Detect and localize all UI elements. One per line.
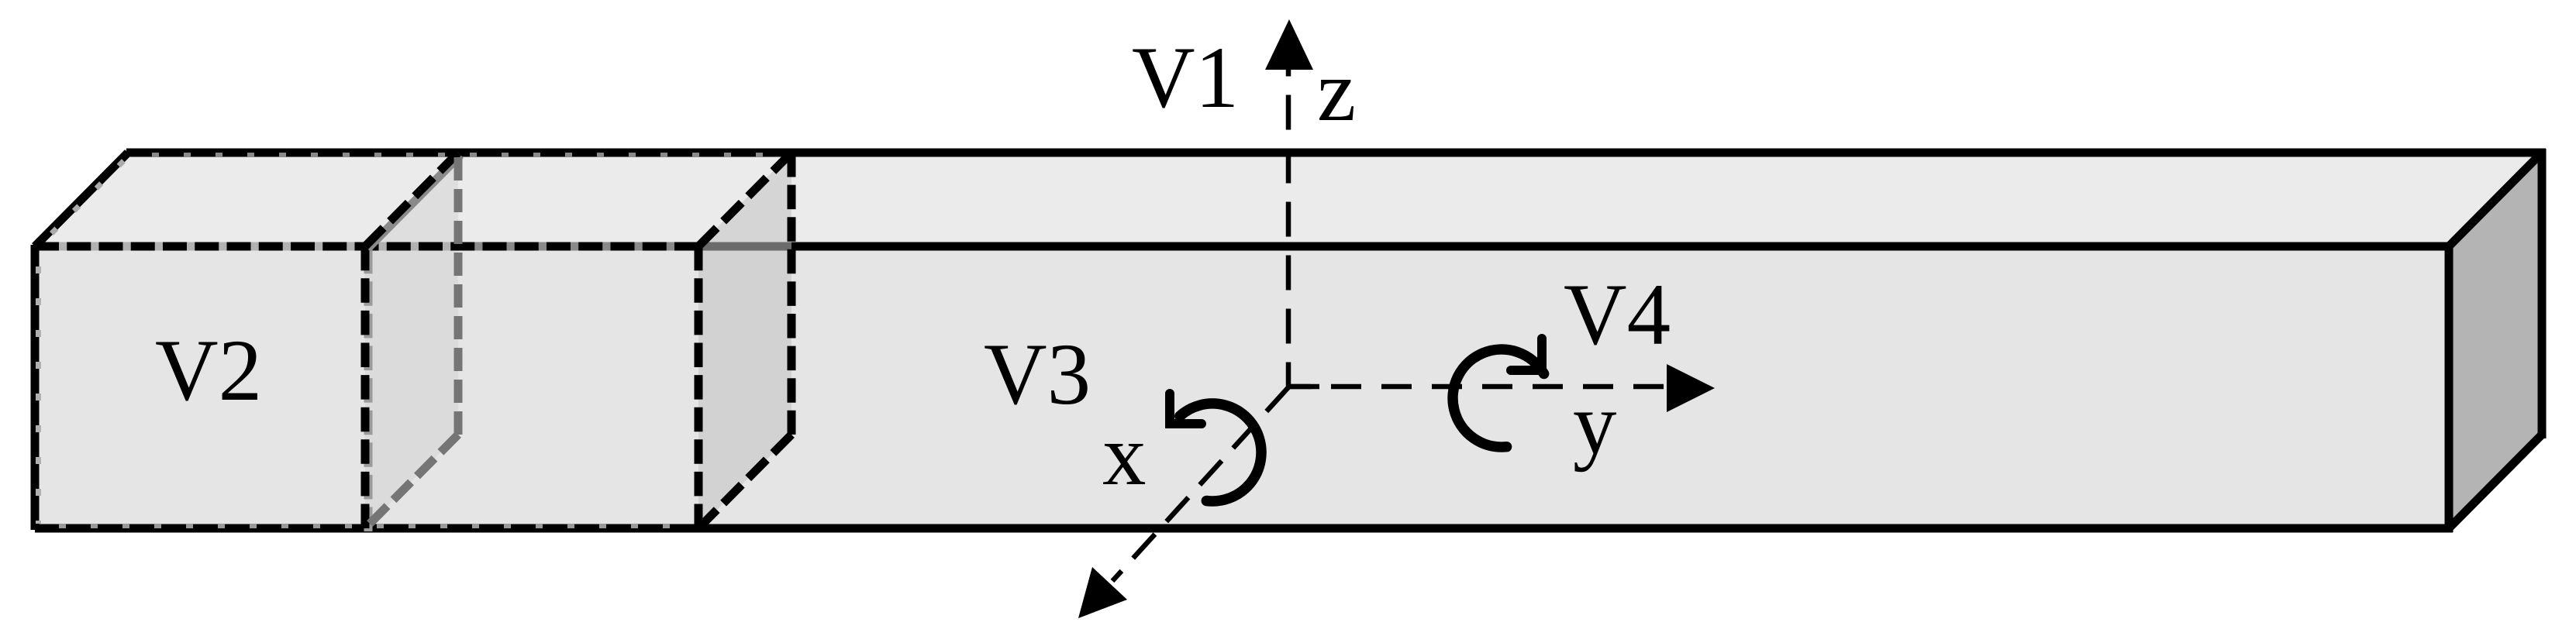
section plane P1 bottom diagonal (gray dashed) bbox=[370, 435, 458, 524]
section plane P2 front edge (black dashed) bbox=[695, 246, 703, 528]
section plane P1 front edge (black dashed) bbox=[365, 246, 368, 531]
front-top edge dashed part bbox=[35, 242, 698, 251]
beam back-top edge (solid, full length) bbox=[126, 149, 2546, 157]
y-axis dashed line bbox=[1288, 384, 1319, 390]
beam top-right diagonal edge bbox=[2449, 153, 2542, 246]
section plane P1 back edge (gray dashed) bbox=[454, 157, 463, 435]
beam right end face bbox=[2449, 153, 2542, 528]
svg-text:z: z bbox=[1317, 43, 1356, 139]
rotation arrow around x-axis arc bbox=[1180, 404, 1261, 501]
svg-text:V4: V4 bbox=[1564, 266, 1671, 363]
beam front-top edge (solid part) bbox=[698, 242, 2453, 251]
y-axis arrowhead bbox=[1667, 364, 1715, 412]
svg-text:V1: V1 bbox=[1132, 29, 1239, 126]
beam back-right vertical edge bbox=[2538, 149, 2547, 438]
svg-text:x: x bbox=[1102, 407, 1147, 504]
beam front-right vertical edge bbox=[2445, 242, 2454, 532]
z-axis dashed line bbox=[1286, 67, 1291, 387]
beam front face bbox=[35, 246, 2449, 528]
section plane P2 back edge (black dashed) bbox=[788, 153, 796, 435]
svg-text:y: y bbox=[1573, 376, 1617, 473]
svg-text:V2: V2 bbox=[155, 322, 262, 419]
left top diagonal edge (dashed) bbox=[35, 153, 129, 246]
beam bottom-right diagonal edge bbox=[2449, 435, 2542, 528]
section plane P1 top diagonal (black dashed) bbox=[365, 153, 460, 249]
section plane P2 fill bbox=[698, 153, 791, 528]
beam back-top edge hidden-part gray ticks bbox=[128, 153, 791, 157]
rotation arrow around y-axis (V4) arc bbox=[1453, 349, 1544, 447]
section plane P2 bottom diagonal (black dashed) bbox=[698, 435, 791, 528]
beam front-bottom edge (solid, full length) bbox=[35, 524, 2453, 533]
rotation arrow around x-axis arrowhead bbox=[1170, 394, 1202, 424]
beam front-bottom edge hidden-part gray ticks bbox=[35, 524, 698, 528]
z-axis arrowhead bbox=[1265, 19, 1313, 70]
beam top face bbox=[35, 153, 2542, 246]
rotation arrow around y-axis (V4) arrowhead bbox=[1511, 339, 1542, 370]
x-axis dashed line bbox=[1112, 387, 1288, 581]
left front vertical edge (dashed) bbox=[35, 245, 39, 530]
x-axis arrowhead bbox=[1078, 567, 1127, 618]
section plane P1 fill bbox=[365, 153, 458, 528]
section plane P2 top diagonal (black dashed) bbox=[698, 153, 791, 246]
svg-text:V3: V3 bbox=[984, 326, 1091, 423]
